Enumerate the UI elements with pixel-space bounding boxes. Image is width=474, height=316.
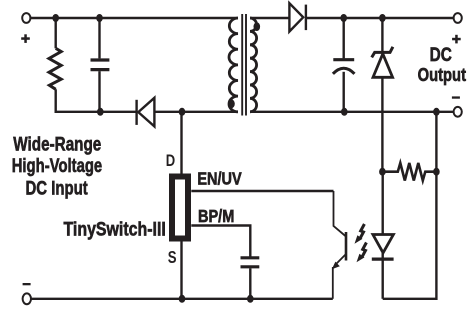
node: S pin at rail (179, 295, 186, 303)
minus sign (output) (452, 96, 460, 98)
svg-text:EN/UV: EN/UV (197, 168, 242, 188)
wire: output cap bottom lead (343, 72, 345, 112)
primary polarity dot (228, 99, 235, 108)
svg-text:D: D (166, 151, 175, 170)
wire: bottom rail (primary return) (31, 298, 333, 300)
wire: feedback return (right side down and across) (383, 112, 437, 299)
svg-text:DC Input: DC Input (26, 178, 89, 200)
svg-text:Wide-Range: Wide-Range (13, 134, 101, 156)
node: bypass capacitor at rail (247, 295, 254, 303)
output rectifier diode D2 (289, 3, 306, 31)
emitter arrowhead (332, 262, 340, 270)
svg-text:TinySwitch-III: TinySwitch-III (64, 219, 166, 241)
wire: drain to D pin (180, 112, 182, 174)
DC input positive terminal (22, 13, 30, 23)
output filter capacitor C2 (polarized) (333, 60, 355, 74)
optocoupler phototransistor (345, 232, 348, 261)
wire: zener top lead (381, 18, 383, 52)
node: clamp resistor top (52, 14, 59, 22)
svg-text:BP/M: BP/M (198, 206, 234, 226)
DC output negative terminal (454, 107, 462, 117)
wire: rectifier to + output terminal (306, 17, 454, 19)
svg-text:S: S (168, 247, 177, 267)
light arrow 1 (355, 224, 365, 244)
minus sign (input) (23, 283, 31, 285)
wire: clamp capacitor top lead (98, 18, 100, 58)
node: drain (179, 108, 186, 116)
wire: clamp diode to drain node (154, 111, 238, 113)
node: clamp capacitor top (96, 14, 103, 22)
wire: BP/M pin to bypass capacitor (191, 226, 250, 257)
secondary polarity dot (253, 22, 260, 31)
node: resistor right (433, 168, 440, 176)
wire: top rail (primary +) (30, 17, 238, 19)
optocoupler LED (372, 235, 394, 260)
wire: secondary top lead (250, 17, 289, 19)
wire: bypass capacitor to rail (249, 268, 251, 298)
node: output cap bottom (341, 108, 348, 116)
light arrow 2 (357, 243, 367, 263)
clamp resistor R1 (49, 48, 61, 89)
wire: LED bottom lead (382, 253, 384, 299)
DC input negative terminal (23, 293, 31, 304)
wire: secondary bottom rail (250, 111, 454, 113)
wire: clamp capacitor bottom lead (98, 71, 100, 112)
wire: LED top lead (382, 172, 384, 235)
svg-text:High-Voltage: High-Voltage (12, 155, 103, 177)
node: zener / LED / resistor junction (379, 168, 386, 176)
node: clamp capacitor bottom (97, 108, 104, 116)
plus sign (output) (452, 35, 461, 44)
wire: resistor top lead (55, 18, 57, 48)
wire: emitter to primary return rail (332, 267, 334, 299)
node: feedback return at rail (433, 108, 440, 116)
wire: zener to feedback node (crosses rail, no connection) (381, 77, 383, 171)
wire: output cap top lead (343, 18, 345, 58)
clamp capacitor C1 (91, 60, 110, 70)
DC output positive terminal (454, 13, 462, 23)
wire: resistor bottom to clamp diode (56, 89, 136, 112)
transformer T1 secondary winding (250, 18, 257, 112)
svg-text:Output: Output (418, 65, 466, 85)
TinySwitch-III IC U1 (172, 177, 188, 239)
plus sign (input) (21, 34, 30, 43)
transformer T1 primary winding (229, 18, 238, 112)
bypass capacitor C3 (241, 258, 260, 267)
node: output cap top (340, 14, 347, 22)
node: zener top (379, 14, 386, 22)
clamp blocking diode D1 (137, 98, 155, 127)
transformer core (242, 14, 246, 116)
wire: S pin to rail (180, 242, 182, 299)
wire: EN/UV pin to optocoupler collector (191, 190, 333, 192)
svg-text:DC: DC (430, 45, 452, 66)
feedback bias resistor R2 (382, 163, 436, 181)
zener diode VR1 (372, 47, 393, 78)
